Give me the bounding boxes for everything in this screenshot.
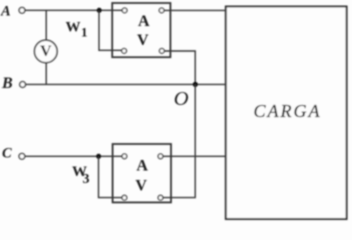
wattmeter W1 (combined A/V instrument): [112, 3, 170, 57]
W1 terminal bottom-right: [159, 49, 164, 54]
wattmeter W3 (combined A/V instrument): [113, 144, 171, 202]
wire: W1 current return down to node O: [164, 51, 195, 84]
wire: line B from terminal to CARGA: [26, 83, 226, 85]
svg-text:A: A: [136, 157, 148, 174]
load CARGA: [226, 7, 347, 220]
svg-text:A: A: [0, 3, 11, 19]
junction node O on line B: [193, 82, 198, 87]
junction on line C: [96, 154, 101, 159]
CARGA body: [226, 7, 347, 220]
terminal A: [19, 7, 25, 13]
svg-text:A: A: [138, 13, 150, 30]
svg-text:O: O: [174, 88, 189, 110]
W1 terminal bottom-left: [122, 49, 127, 54]
W1 terminal top-right: [159, 8, 164, 13]
wire: W3 to CARGA (line C): [163, 155, 226, 157]
junction on line A: [97, 8, 102, 13]
wire: line C from terminal to W3 current coil: [25, 155, 122, 157]
svg-text:CARGA: CARGA: [254, 101, 322, 121]
W3 terminal top-left: [122, 154, 127, 159]
svg-text:B: B: [1, 75, 13, 92]
W3 terminal top-right: [158, 154, 163, 159]
W3 terminal bottom-right: [158, 195, 163, 200]
wire: junction A down and right to W1 voltage terminal: [99, 10, 122, 50]
terminal B: [20, 82, 26, 88]
wire: node O down to W3 current return: [163, 84, 195, 197]
W3 terminal bottom-left: [122, 195, 127, 200]
svg-text:C: C: [2, 146, 12, 162]
wire: voltmeter to line B: [45, 63, 47, 85]
wire: junction C down and right to W3 voltage terminal: [99, 156, 123, 197]
wire: line A from terminal to W1 current coil: [25, 9, 122, 11]
svg-text:V: V: [137, 32, 149, 49]
svg-text:V: V: [40, 43, 52, 60]
W3 body: [113, 144, 171, 202]
terminal C: [19, 153, 25, 159]
svg-text:V: V: [135, 177, 147, 194]
wire: line A down to voltmeter: [45, 10, 47, 40]
voltmeter V: [35, 40, 58, 63]
W1 body: [112, 3, 170, 57]
wire: W1 to CARGA (line A): [164, 9, 226, 11]
W1 terminal top-left: [122, 8, 127, 13]
